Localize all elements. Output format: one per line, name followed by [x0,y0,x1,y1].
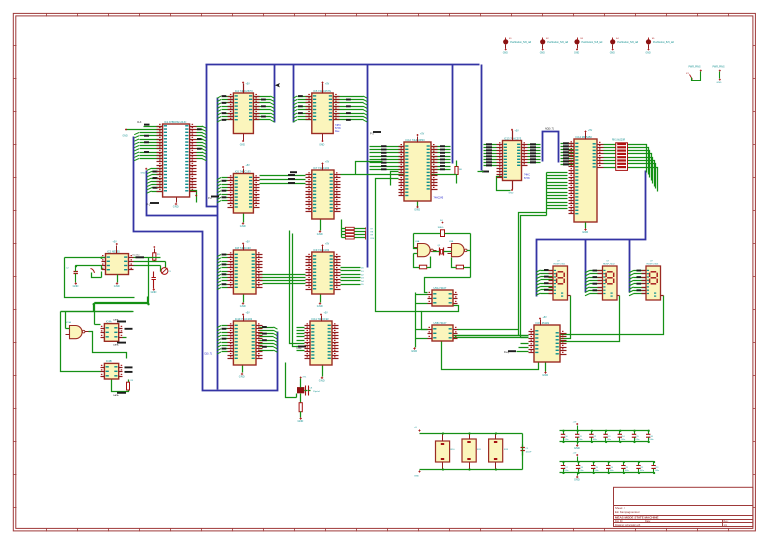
wire B2 bottom gnd [317,220,323,237]
svg-text:100n: 100n [649,439,653,441]
svg-text:DATA: DATA [113,394,119,397]
svg-text:GND: GND [239,375,245,379]
svg-text:AD[0..7]: AD[0..7] [545,128,554,131]
svg-text:Pushbutton_5x5_tall: Pushbutton_5x5_tall [582,41,603,44]
svg-text:GND: GND [114,284,120,288]
wire IC5 lower-left drops [519,213,547,338]
svg-text:R3: R3 [131,380,135,382]
trimmer C3 [161,268,171,275]
svg-text:GND: GND [574,478,580,482]
svg-text:S4: S4 [616,38,619,40]
power flag PWR1 [686,67,702,81]
svg-text:C2: C2 [66,268,70,270]
svg-text:+5V: +5V [515,131,520,133]
svg-text:HDSP-7401: HDSP-7401 [554,264,566,266]
wire C2 bottom gnd [317,295,323,309]
svg-text:+5V: +5V [325,84,330,86]
buffer IC3 74HC245 [399,134,444,202]
svg-text:R10: R10 [371,238,376,240]
resistor pack RP2 [462,434,482,470]
svg-text:HDSP-7403: HDSP-7403 [647,264,659,266]
svg-text:GND: GND [646,53,651,55]
pushbutton S5 [646,38,675,55]
svg-text:GND: GND [411,349,417,353]
wire decoder left from drops [519,336,529,348]
wire bundle A2 right to bus [334,96,368,122]
pushbutton S4 [610,38,639,55]
svg-text:100n: 100n [625,470,629,472]
resistor network R2 4x [342,220,376,240]
wire B2 right run to IC3 [341,162,457,175]
wire C1 bottom gnd [240,295,246,309]
ground dff rail [411,347,417,353]
supply marks resistor packs [414,427,421,478]
wire MCU clock top [137,122,163,127]
svg-text:74HC: 74HC [524,175,530,177]
svg-text:100n: 100n [564,439,568,441]
wire bundle MCU lower-left to bus [141,168,163,193]
svg-text:R10: R10 [451,449,456,451]
wire osc output down [425,278,471,293]
svg-text:R13: R13 [504,449,509,451]
svg-text:GND: GND [414,476,419,478]
svg-text:GND: GND [509,193,514,195]
svg-text:GND: GND [151,290,157,294]
net label at IC4 left [478,171,490,173]
svg-text:100n: 100n [607,439,611,441]
wire bundle D1 left from bus [217,326,228,355]
net label CLK1 [125,328,133,330]
svg-text:GND: GND [610,53,615,55]
svg-text:C23: C23 [655,467,658,469]
svg-text:+5V: +5V [246,84,251,86]
wire dff2-dff3 link [422,306,459,330]
capacitor C5 packs [521,445,533,456]
wire bundle IC5 lower-left [547,173,568,216]
wire D1 bottom gnd [239,366,245,379]
resistor R6 4k7 [455,161,463,184]
svg-text:U5A 74107: U5A 74107 [434,286,447,290]
capacitor bank row1 [560,430,654,444]
svg-text:U7: U7 [607,260,611,262]
svg-text:Drawing: schematic.sch: Drawing: schematic.sch [615,524,641,527]
svg-text:C13: C13 [607,436,610,438]
ground C4 [151,288,157,294]
crystal Q2 osc [438,245,444,256]
svg-text:+5V: +5V [113,242,118,244]
svg-text:+5V: +5V [324,313,329,315]
counter IC C2 [306,244,341,295]
ground C2 [73,282,79,288]
svg-text:R8: R8 [371,232,374,234]
svg-text:Q2: Q2 [438,245,442,247]
counter IC B2 [306,162,341,220]
svg-text:+5V: +5V [573,452,577,454]
wire MCU gnd stub left [123,129,163,138]
net label AD[0..7] [545,128,554,131]
svg-text:S3: S3 [580,38,583,40]
svg-text:GND: GND [317,232,323,236]
7-segment display LD3 [642,260,664,300]
svg-text:S1: S1 [509,38,512,40]
wire bundle A1 right to bus [254,96,275,122]
svg-text:GND: GND [141,173,146,175]
svg-text:+5V: +5V [325,162,330,164]
ground 555 [114,275,120,289]
svg-text:S2: S2 [546,38,549,40]
wire bundle display3 from bus [629,270,647,296]
svg-text:IC12 74HC245N: IC12 74HC245N [406,138,425,142]
wire oscillator loop [414,234,471,254]
wire bundle IC5 left upper from bus [561,142,575,165]
pushbutton S2 [540,38,569,55]
svg-text:D1: D1 [361,271,365,273]
wire B1 bottom gnd [240,214,246,229]
svg-text:Rev:: Rev: [724,520,729,523]
pushbutton S3 [574,38,603,55]
svg-text:U3B: U3B [449,241,454,243]
svg-text:S5: S5 [652,38,655,40]
svg-text:Pushbutton_5x5_tall: Pushbutton_5x5_tall [547,41,568,44]
svg-text:R1: R1 [157,254,161,256]
svg-text:D0: D0 [361,268,365,270]
svg-text:HDSP-7402: HDSP-7402 [603,264,615,266]
flip-flop U5A [428,286,458,306]
bus drop left x205 [207,65,218,207]
svg-text:P-3: P-3 [370,133,374,136]
counter IC B1 [228,165,260,213]
svg-text:Doc ID:: Doc ID: [615,520,623,523]
wire D2 bottom gnd [319,366,325,383]
black arrow label AD bus top [275,83,280,87]
svg-text:DATA: DATA [113,344,119,347]
junction dots packs [442,432,497,470]
wire decoder left pair [454,336,529,338]
bus drop x293 [293,65,295,123]
svg-text:+5V: +5V [573,421,577,423]
svg-text:XT1: XT1 [303,377,308,379]
wire bundle IC3 left from bus [370,145,405,170]
svg-text:blue: blue [335,131,340,133]
svg-text:GND: GND [319,378,325,382]
svg-text:R6: R6 [459,169,463,171]
svg-text:C17: C17 [564,467,567,469]
svg-text:U7: U7 [650,260,654,262]
wire bundle display1 from bus [536,269,554,295]
svg-text:+5V: +5V [325,244,330,246]
svg-text:D[0..7]: D[0..7] [205,353,213,356]
wire bundle D1 right to bus [260,326,278,352]
capacitor bank row2 [560,461,660,474]
svg-text:U7: U7 [557,260,561,262]
bus AD link [543,132,559,163]
svg-text:GND: GND [173,205,179,209]
svg-text:100n: 100n [593,439,597,441]
svg-text:D4: D4 [361,281,365,283]
svg-text:GND: GND [123,136,128,138]
svg-text:100nF: 100nF [526,452,533,454]
svg-text:GND: GND [240,224,246,228]
counter IC D2 [305,313,339,366]
svg-text:CLK: CLK [137,122,142,124]
wire long verticals mid [290,231,305,347]
net label P-2 [208,196,219,200]
svg-text:Ein Kampagnentool: Ein Kampagnentool [615,510,640,514]
nand gate U3A oscillator [414,240,437,257]
svg-text:C20: C20 [610,467,613,469]
wire resistor pack rails [420,434,523,470]
wire bundle MCU left upper to bus [134,133,162,161]
bus top horizontal [206,64,480,66]
svg-text:C21: C21 [625,467,628,469]
net label Freq [504,350,529,354]
nand gate U3B oscillator [448,241,471,257]
svg-text:+5V: +5V [246,242,251,244]
crystal Q1 [297,386,320,396]
svg-text:R4: R4 [440,220,443,222]
resistor R9 osc right [452,251,471,278]
svg-text:C10: C10 [564,436,567,438]
bus branch x146 [147,171,218,216]
flip-flop IC4A latch [101,319,123,341]
supply cap bank row2 [573,452,580,481]
svg-text:C16: C16 [649,436,652,438]
svg-text:GND: GND [414,208,420,212]
svg-text:C3: C3 [168,271,172,273]
svg-text:Freq: Freq [504,351,509,354]
driver IC5 tall [569,130,604,234]
net label OscOut [132,254,161,259]
svg-text:IC4A: IC4A [106,319,112,323]
wire bundle IC3 right to bus [432,145,451,170]
wire bundle MCU right to bus [197,126,207,161]
svg-text:100n: 100n [610,470,614,472]
wire bundle C1-C2 crossing [260,275,306,284]
wire 555 bottom runs [61,258,149,312]
junction dots 555 [75,257,150,306]
wire bundle IC4 right to bus [528,143,541,163]
svg-text:C11: C11 [578,436,581,438]
svg-text:GND: GND [503,53,508,55]
svg-text:C8: C8 [310,388,314,390]
ground IC3 [414,202,420,212]
bus display feed [537,171,646,297]
resistor R1 555 [153,246,161,260]
svg-text:RN1 8x220R: RN1 8x220R [612,140,625,142]
svg-text:+5V: +5V [588,130,593,132]
wire display3 cathode to decoder [561,296,664,335]
svg-text:100n: 100n [621,439,625,441]
net label P-1 [147,202,160,206]
svg-text:GND: GND [574,446,580,450]
net label DATA top [113,319,126,323]
wire B1-B2 links [260,171,306,184]
wire 555 right [134,261,166,272]
wire display2 cathode to decoder [561,296,620,342]
svg-text:100n: 100n [655,470,659,472]
7-segment display LD2 [598,260,620,300]
svg-text:+5V: +5V [543,317,548,319]
7-segment display LD1 [549,260,571,300]
wire display1 cathode to decoder [561,296,571,339]
svg-text:100n: 100n [564,470,568,472]
svg-text:DATA: DATA [113,319,119,322]
wire bundle IC4 left from bus [484,143,497,166]
svg-text:D5: D5 [361,284,365,286]
wire dff left rail [416,293,428,348]
svg-text:100n: 100n [579,470,583,472]
pushbutton S1 [503,38,532,55]
svg-text:+5V: +5V [246,165,251,167]
svg-text:C12: C12 [593,436,596,438]
resistor pack RP1 [436,434,456,470]
wire latch loops [61,297,148,372]
svg-text:100n: 100n [594,470,598,472]
counter IC D1 [228,313,263,366]
wire bundle D2 left [297,328,305,351]
wire bundle IC5 right through resistor array [604,145,658,192]
wire 555 left loop [65,258,135,298]
svg-text:100n: 100n [640,470,644,472]
svg-text:R7: R7 [371,229,374,231]
svg-text:C19: C19 [594,467,597,469]
svg-text:IC3A: IC3A [66,321,71,324]
svg-text:15p/ref: 15p/ref [313,390,320,393]
wire bundle C2 right labels [341,268,365,287]
svg-text:C15: C15 [635,436,638,438]
diode reset 555 [91,269,102,278]
latch IC A1 74HC573 [228,82,260,147]
wire bundle display2 from bus [585,270,603,296]
capacitor C2 555 left [66,266,78,283]
svg-text:D3: D3 [361,278,365,280]
title block [614,487,753,527]
svg-text:C5: C5 [526,448,530,450]
flip-flop IC4B latch [101,359,123,379]
svg-text:IC7 74HC193: IC7 74HC193 [313,166,329,170]
svg-text:GND: GND [240,304,246,308]
wire MCU right lower gnd [190,191,198,203]
svg-text:GND: GND [582,230,588,234]
svg-text:R9: R9 [371,235,374,237]
microcontroller IC1 AT89C52 [157,120,197,209]
resistor R5 osc left [414,254,431,269]
svg-text:Pushbutton_5x5_tall: Pushbutton_5x5_tall [653,41,674,44]
svg-text:GND: GND [298,419,304,423]
net label TRIM [296,346,306,350]
svg-text:GND: GND [73,284,79,288]
svg-text:1MEG: 1MEG [438,227,444,229]
svg-text:P-2: P-2 [208,197,212,200]
latch IC4 74HC573 mid [497,129,531,181]
wire IC4 bottom gnd [497,177,514,195]
svg-text:GND: GND [240,144,245,146]
net label DATA mid [113,342,126,347]
svg-text:Date:: Date: [645,520,651,523]
decoder IC6 [529,317,567,362]
svg-text:D2: D2 [361,274,365,276]
svg-text:OscOut: OscOut [132,254,140,257]
svg-text:Pushbutton_5x5_tall: Pushbutton_5x5_tall [617,41,638,44]
wire latch bottom [112,380,129,392]
net label P-3 [370,131,381,135]
svg-text:IC14 MM5450: IC14 MM5450 [576,135,593,139]
wire decoder feedback [442,342,539,370]
nand gate IC3A latch [66,321,89,339]
bus vertical x217 [217,98,219,390]
svg-text:573N: 573N [335,128,341,130]
svg-text:PWR_PINS: PWR_PINS [713,67,725,69]
ground decoder [542,363,548,378]
bus label D blue [205,353,213,356]
wire 555 vcc [113,242,118,254]
svg-text:C14: C14 [621,436,624,438]
power flag PWR2 [713,67,725,85]
bus drop x481 [481,65,483,171]
wire bundle C1 left from bus [217,254,228,290]
svg-text:74HC245: 74HC245 [434,198,444,200]
counter IC C1 [228,242,263,295]
svg-text:C18: C18 [579,467,582,469]
svg-text:+5V: +5V [246,313,251,315]
capacitor C4 555 right [152,272,156,289]
svg-text:573N: 573N [524,178,530,180]
wire IC3 lower-left loop [376,172,422,312]
resistor R12 [299,403,302,418]
svg-text:MEAS MODE STATE MACHINE: MEAS MODE STATE MACHINE [615,516,659,520]
wire bundle B1 left from bus [217,178,228,203]
bus drop x452 [452,65,454,164]
wire dff3 to decoder [458,330,519,336]
resistor R3 latch [127,380,135,390]
supply cap bank row1 [573,421,580,450]
svg-text:Pushbutton_5x5_tall: Pushbutton_5x5_tall [510,41,531,44]
flip-flop U5B [428,321,458,341]
svg-text:TRIM: TRIM [296,348,302,350]
svg-text:GND: GND [542,373,548,377]
latch IC A2 74HC573 [306,82,342,147]
svg-text:GND: GND [574,53,579,55]
svg-text:IC1 AT89C52-24JC: IC1 AT89C52-24JC [164,120,186,124]
svg-text:PWR_PINS: PWR_PINS [689,67,701,69]
ground crystal [298,417,304,423]
resistor array RN1 8x220 [612,140,628,171]
resistor R4 osc top [438,220,445,237]
svg-text:GND: GND [317,304,323,308]
svg-text:100n: 100n [578,439,582,441]
svg-text:IC2 NE555: IC2 NE555 [107,249,120,253]
wire bundle A1 left from bus [217,95,234,122]
wire bundle A2 left from bus [293,95,312,122]
svg-text:GND: GND [717,82,722,84]
svg-text:100n: 100n [635,439,639,441]
svg-text:74HC: 74HC [335,125,341,127]
svg-text:R11: R11 [477,449,482,451]
svg-text:C22: C22 [640,467,643,469]
svg-text:+U: +U [414,427,417,429]
svg-text:U3A: U3A [415,240,420,243]
bus drop x274 [274,65,276,123]
net label DATA bottom [113,392,126,397]
svg-text:IC15 4511N: IC15 4511N [536,321,550,325]
svg-text:IC9 74HC193: IC9 74HC193 [313,248,329,252]
wire crystal connections [286,363,311,403]
svg-text:U5B 74107: U5B 74107 [434,321,448,325]
timer IC2 NE555 [102,249,134,274]
resistor pack RP3 [489,434,509,470]
svg-text:P-1: P-1 [147,204,151,207]
svg-text:GND: GND [540,53,545,55]
